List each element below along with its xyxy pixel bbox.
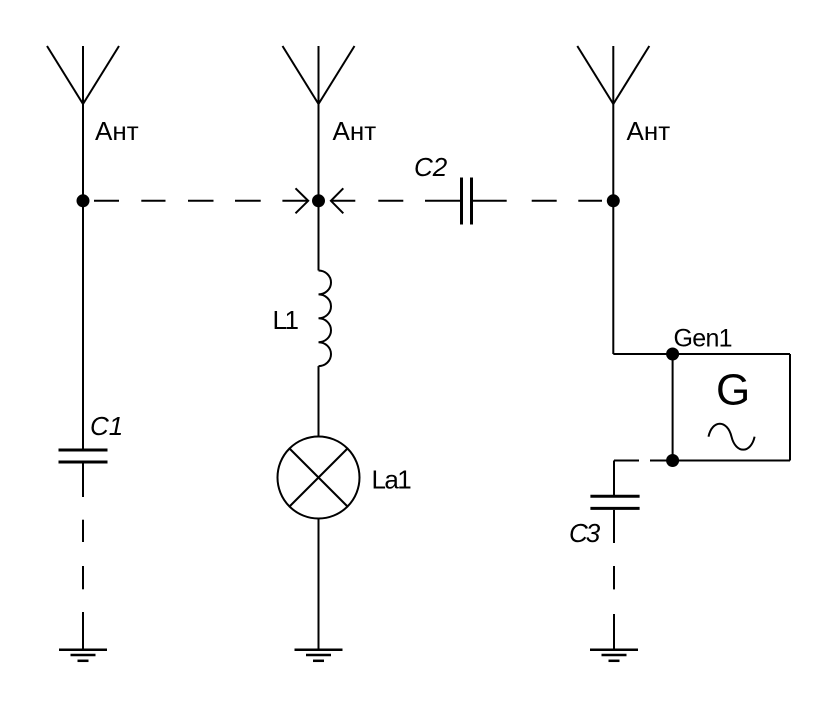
wire: C2 left lead: [425, 200, 460, 202]
wire into left ground: [82, 612, 84, 650]
antenna 1 (left) mast wire: [82, 46, 84, 450]
dashed wire: C1 to ground: [82, 520, 84, 590]
capacitor C1 bottom plate: [59, 461, 108, 464]
capacitor C3 bottom plate: [590, 507, 639, 510]
generator Gen1 box: [673, 354, 790, 461]
wire: L1 to lamp: [318, 366, 320, 436]
capacitor C1 top plate: [59, 449, 108, 452]
node: Gen1 top terminal: [666, 348, 679, 361]
wire: C2 right lead: [473, 200, 507, 202]
dashed wire: middle node to C2: [378, 200, 403, 202]
dashed wire: C2 to right node: [532, 200, 602, 202]
lamp La1 circle: [278, 437, 360, 519]
arrow pointing right into middle node: [282, 188, 308, 213]
antenna 1 left arm: [47, 46, 83, 104]
svg-text:Ант: Ант: [627, 116, 671, 146]
node: right antenna junction: [607, 194, 620, 207]
node: left antenna junction: [77, 194, 90, 207]
wire into right ground: [613, 614, 615, 650]
svg-text:G: G: [716, 366, 750, 415]
antenna 3 right arm: [613, 46, 649, 104]
antenna 3 left arm: [577, 46, 613, 104]
svg-text:C1: C1: [90, 411, 123, 441]
inductor L1: [319, 271, 332, 367]
wire: corner down to C3: [613, 461, 615, 497]
wire: C3 lower lead: [613, 510, 615, 543]
dashed wire: C3 to ground: [613, 566, 615, 589]
wire: C1 lower lead: [82, 464, 84, 498]
lamp La1 cross: [290, 449, 348, 507]
svg-text:Ант: Ант: [333, 116, 377, 146]
dashed wire: left node to middle node: [94, 200, 261, 202]
svg-text:Ант: Ант: [95, 116, 139, 146]
capacitor C2 left plate: [460, 178, 463, 225]
ground (middle): [295, 650, 343, 661]
ground (right): [590, 650, 638, 661]
wire: generator bottom to C3 (dashed part): [614, 460, 639, 462]
ground (left): [59, 650, 107, 661]
wire: right node down and over to generator: [613, 353, 672, 355]
capacitor C2 right plate: [470, 178, 473, 225]
antenna 3 (right) mast wire: [612, 46, 614, 354]
svg-text:L1: L1: [273, 305, 299, 335]
wire: into generator bottom node: [650, 460, 673, 462]
svg-text:Gen1: Gen1: [674, 325, 732, 353]
node: Gen1 bottom terminal: [666, 454, 679, 467]
generator sine wave: [709, 424, 755, 450]
svg-text:C3: C3: [569, 518, 601, 548]
capacitor C3 top plate: [590, 495, 639, 498]
antenna 2 right arm: [319, 46, 355, 104]
antenna 2 (middle) mast wire: [318, 46, 320, 271]
antenna 2 left arm: [283, 46, 319, 104]
node: middle antenna junction: [312, 194, 325, 207]
svg-text:C2: C2: [414, 152, 448, 182]
wire: lamp to ground: [318, 519, 320, 650]
antenna 1 right arm: [83, 46, 119, 104]
arrow pointing left into middle node: [331, 188, 355, 213]
svg-text:La1: La1: [372, 465, 412, 495]
